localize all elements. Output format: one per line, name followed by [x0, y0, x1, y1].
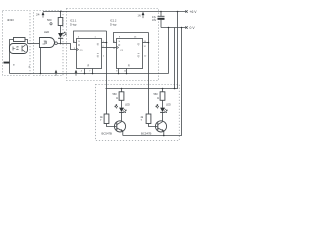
transistor driver1 legs: [117, 122, 123, 131]
terminal 0V: [185, 26, 187, 28]
optocoupler light arrows: [16, 46, 19, 49]
junction dot ground link: [168, 27, 170, 29]
svg-text:1N: 1N: [138, 14, 141, 17]
svg-text:Q: Q: [138, 43, 140, 46]
resistor R2 560 body: [58, 18, 63, 26]
LED driver1 cathode bar: [119, 111, 124, 113]
svg-text:Ω: Ω: [157, 97, 159, 100]
LED driver2 light arrows: [156, 105, 159, 109]
svg-text:Q: Q: [97, 55, 99, 58]
svg-text:+6 V: +6 V: [190, 10, 198, 14]
junction dot IC2 gnd a: [118, 73, 120, 75]
input terminal bar: [4, 62, 10, 64]
capacitor C1 thin plate: [158, 15, 165, 17]
resistor driver1 4k7 body: [104, 114, 109, 124]
terminal +6V: [185, 10, 187, 12]
wire driver1 base: [107, 124, 117, 127]
svg-text:24: 24: [36, 13, 40, 17]
transistor driver1 base bar: [116, 123, 118, 131]
wire LED D2 to node: [60, 38, 62, 43]
svg-text:0 V: 0 V: [190, 26, 196, 30]
wire driver1 LED to collector: [121, 112, 123, 121]
wire opto right leg: [25, 40, 28, 44]
ground arrow marker 2: [75, 70, 78, 76]
junction dot 0V feed: [181, 27, 183, 29]
module box A (opto input) dashed border: [3, 11, 31, 76]
LED D2 cathode bar: [58, 37, 63, 39]
junction dot cap: [160, 11, 162, 13]
wire 0V feed to emitters: [123, 28, 182, 136]
IC2 bottom pin a: [118, 69, 120, 74]
IC1 feedback loop: [102, 42, 107, 44]
junction dot gate gnd: [40, 73, 42, 75]
junction dot IC1 gnd a: [84, 73, 86, 75]
LED driver2 triangle: [160, 108, 165, 112]
svg-text:4N33: 4N33: [7, 18, 14, 22]
svg-text:R: R: [88, 64, 90, 67]
IC2 clock mark: [117, 46, 119, 49]
optocoupler phototransistor: [22, 45, 25, 52]
svg-text:12: 12: [144, 46, 147, 48]
wire +6V feed to drivers: [106, 12, 178, 89]
wire driver1 signal: [106, 31, 108, 114]
svg-text:D-typ: D-typ: [70, 22, 77, 26]
svg-text:BC547B: BC547B: [102, 131, 113, 135]
optocoupler inner LED: [13, 47, 15, 51]
svg-text:560: 560: [154, 93, 159, 96]
optocoupler body: [10, 44, 28, 54]
svg-text:Q: Q: [138, 55, 140, 58]
gate N1 body: [40, 38, 55, 48]
supply arrow node 1N: [142, 12, 145, 18]
wire gate ground: [40, 48, 42, 74]
wire driver2 base: [149, 124, 158, 127]
resistor driver1 560 stub: [121, 89, 123, 92]
IC1 bottom pin b: [92, 69, 94, 74]
svg-text:LED: LED: [44, 30, 49, 34]
wire driver2 res to LED: [162, 100, 164, 107]
svg-text:11: 11: [113, 48, 116, 50]
IC2 feedback loop: [143, 42, 149, 44]
LED D2 triangle: [58, 33, 63, 38]
svg-text:D: D: [119, 44, 121, 47]
wire driver2 emitter: [163, 131, 165, 136]
svg-text:R: R: [128, 64, 130, 67]
svg-text:12: 12: [144, 55, 147, 57]
wire opto output: [28, 43, 40, 45]
junction dot Q2: [148, 42, 150, 44]
transistor driver1 circle: [114, 121, 125, 132]
optocoupler resistor body: [14, 38, 26, 42]
resistor driver2 4k7 body: [146, 114, 151, 124]
gate N1 hysteresis mark: [43, 41, 47, 44]
wire opto left leg: [10, 40, 14, 74]
junction dot IC2 gnd b: [126, 73, 128, 75]
svg-text:a: a: [13, 64, 15, 67]
svg-text:16V: 16V: [152, 19, 157, 22]
wire driver2 LED to collector: [162, 112, 164, 121]
marker circle box B: [50, 23, 52, 25]
capacitor C1 top stub: [160, 12, 162, 17]
resistor driver2 560 stub: [162, 89, 164, 92]
capacitor C1 bottom stub: [160, 20, 162, 28]
LED driver2 cathode bar: [160, 111, 165, 113]
resistor R2 stub: [60, 12, 62, 18]
IC2 bottom pin b: [126, 69, 128, 74]
capacitor C1 thick plate: [158, 18, 165, 20]
svg-text:560: 560: [47, 18, 52, 22]
svg-text:Q: Q: [97, 43, 99, 46]
junction dot +6V feed: [177, 11, 179, 13]
svg-text:BC547B: BC547B: [141, 131, 152, 135]
wire IC1 Q to IC2 clock: [102, 47, 117, 49]
junction dot emitter rail: [163, 135, 165, 137]
resistor driver2 560 body: [160, 92, 165, 101]
svg-text:IC1.2: IC1.2: [110, 19, 117, 23]
svg-text:560: 560: [113, 93, 118, 96]
transistor driver2 circle: [155, 121, 166, 132]
svg-text:Ω: Ω: [116, 97, 118, 100]
svg-text:7: 7: [100, 119, 102, 122]
resistor driver1 560 body: [119, 92, 124, 101]
wire +24V supply rail: [43, 11, 187, 13]
supply arrow 24V input: [42, 12, 45, 18]
LED D2 light arrows: [62, 32, 66, 36]
wire ground link: [168, 28, 170, 74]
junction dot driver rail 1: [121, 88, 123, 90]
svg-text:LED: LED: [166, 104, 171, 107]
svg-text:LED: LED: [125, 104, 130, 107]
IC1 feedback loop top: [74, 31, 107, 43]
svg-text:S: S: [119, 41, 121, 43]
ground arrow marker 1: [55, 70, 58, 76]
wire ground rail: [10, 73, 169, 75]
svg-text:8: 8: [116, 71, 118, 73]
junction dot Q1: [106, 42, 108, 44]
wire aux link: [174, 28, 176, 89]
module box D (lamp drivers) dashed border: [96, 85, 180, 141]
svg-text:D: D: [78, 44, 80, 47]
LED driver1 light arrows: [115, 105, 118, 109]
wire driver2 signal: [148, 33, 150, 115]
svg-text:4: 4: [81, 71, 83, 73]
transistor driver1 emitter arrow: [121, 129, 123, 131]
svg-text:S: S: [78, 41, 80, 43]
gate N1 output bubble: [55, 42, 58, 45]
wire gate output to node and IC1: [57, 44, 76, 50]
IC1 clock mark: [77, 48, 79, 51]
IC1 bottom pin a: [84, 69, 86, 74]
IC2 box: [117, 39, 143, 69]
IC1 box: [77, 39, 102, 69]
wire driver1 emitter: [122, 131, 124, 136]
svg-text:IC1.1: IC1.1: [70, 19, 77, 23]
junction dot gate output node: [60, 43, 62, 45]
wire driver1 res to LED: [121, 100, 123, 107]
transistor driver2 base bar: [157, 123, 159, 131]
svg-text:D-typ: D-typ: [110, 22, 117, 26]
transistor driver2 emitter arrow: [162, 129, 164, 131]
junction dot R2 stub: [60, 11, 62, 13]
svg-text:C1: C1: [80, 50, 84, 52]
IC2 feedback loop top: [114, 33, 149, 43]
junction dot driver rail 2: [162, 88, 164, 90]
svg-text:C1: C1: [120, 50, 124, 52]
module box B (LED buffer) dashed border: [34, 11, 64, 76]
wire R2 to LED D2: [60, 26, 62, 34]
junction dot IC1 gnd b: [92, 73, 94, 75]
svg-text:7: 7: [89, 71, 91, 73]
junction dot driver rail aux: [174, 88, 176, 90]
transistor driver2 legs: [158, 122, 164, 131]
LED driver1 triangle: [119, 108, 124, 112]
wire 0V rail: [161, 27, 187, 29]
svg-text:2: 2: [103, 55, 105, 57]
svg-text:7: 7: [141, 119, 143, 122]
module box C (flip-flop logic) dashed border: [67, 9, 159, 81]
